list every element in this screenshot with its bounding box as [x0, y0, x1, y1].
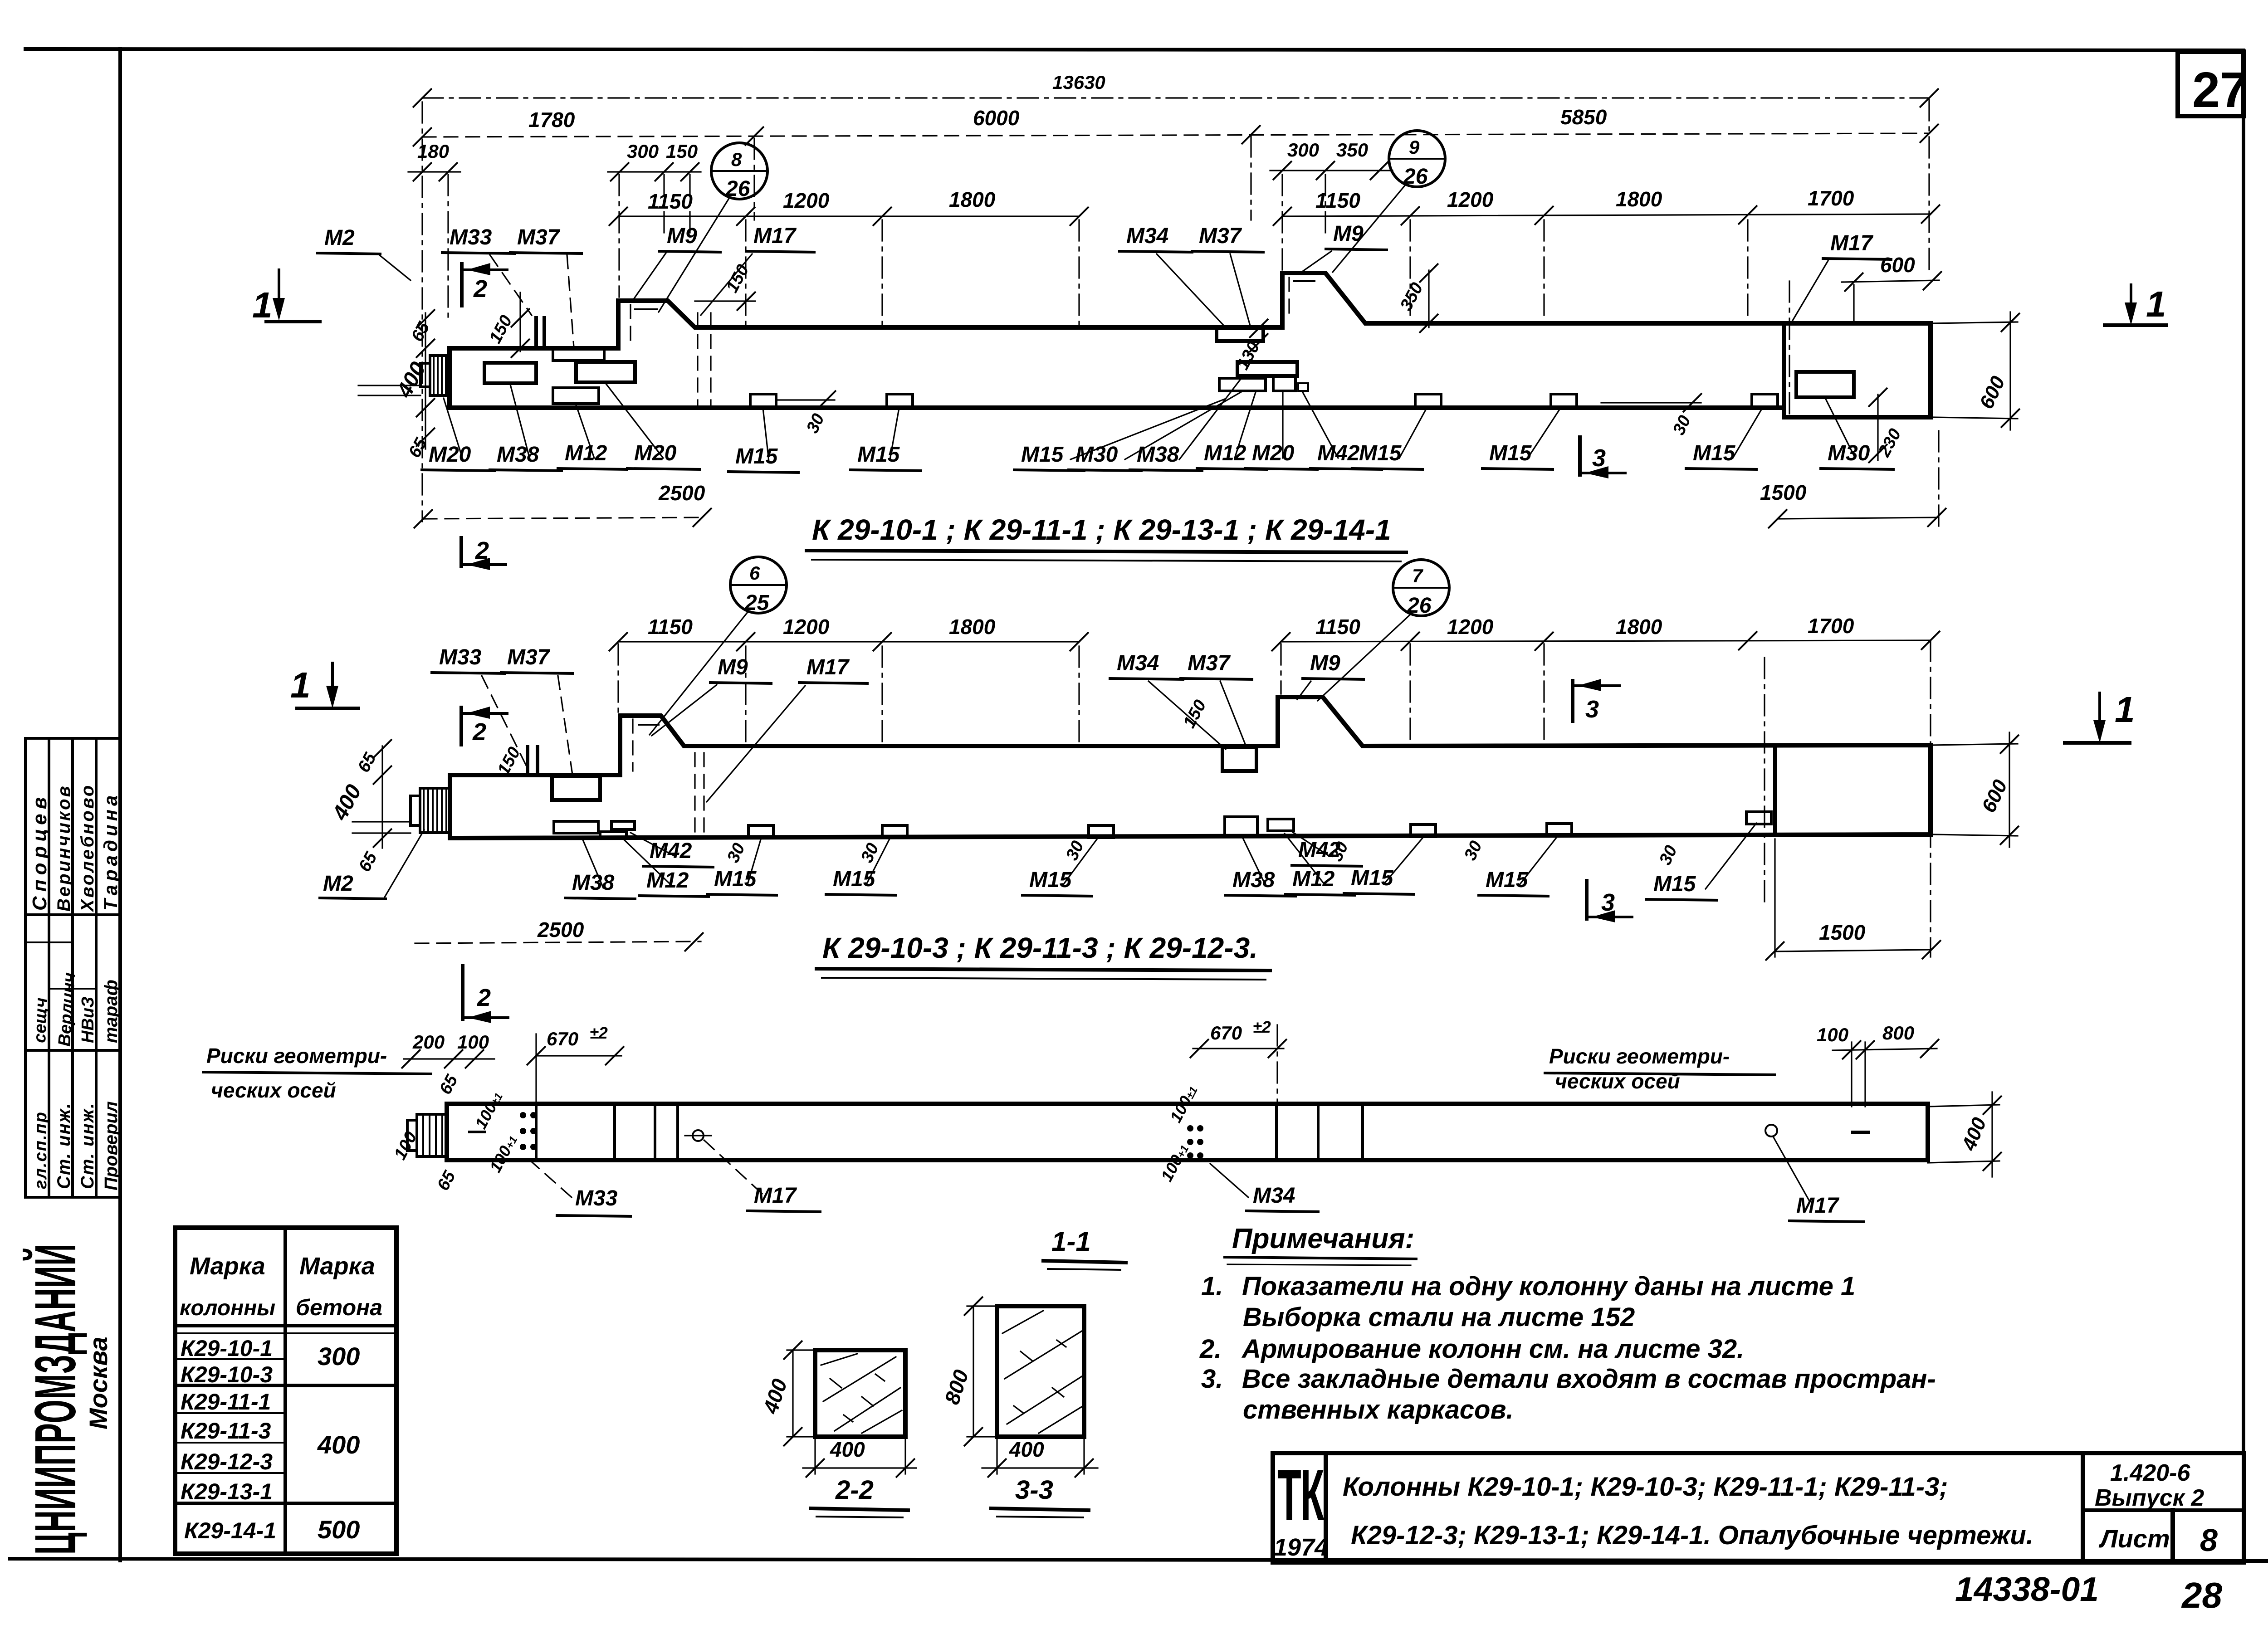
svg-text:25: 25 — [744, 591, 770, 615]
svg-text:Веринчиков: Веринчиков — [54, 784, 74, 912]
svg-text:М12: М12 — [1204, 441, 1246, 465]
circle 7/26 — [1393, 560, 1449, 616]
left end dims drawing 2 — [381, 746, 383, 848]
marks table frame — [175, 1228, 396, 1554]
dim row 180 300 150 / 300 350 — [408, 171, 460, 172]
svg-text:2.: 2. — [1199, 1334, 1222, 1364]
M30 plate — [1796, 372, 1854, 397]
svg-text:1: 1 — [2146, 284, 2166, 324]
svg-text:М34: М34 — [1126, 224, 1168, 248]
svg-text:ственных каркасов.: ственных каркасов. — [1243, 1395, 1514, 1424]
hole M17 left — [693, 1130, 704, 1141]
svg-text:Ст. инж.: Ст. инж. — [54, 1102, 74, 1189]
svg-text:М37: М37 — [507, 645, 551, 669]
svg-text:К29-14-1: К29-14-1 — [184, 1518, 276, 1543]
svg-text:М37: М37 — [1188, 651, 1231, 675]
dim 400 bottom for 2-2 — [814, 1437, 816, 1474]
svg-text:1150: 1150 — [1315, 615, 1360, 639]
svg-text:2: 2 — [477, 984, 491, 1011]
svg-text:ческих осей: ческих осей — [211, 1078, 336, 1102]
svg-text:100: 100 — [1817, 1024, 1848, 1045]
svg-text:Риски геометри-: Риски геометри- — [1549, 1044, 1730, 1068]
svg-text:3-3: 3-3 — [1015, 1475, 1053, 1505]
svg-text:К29-12-3: К29-12-3 — [181, 1449, 273, 1474]
DRAWING2 — [290, 557, 2135, 980]
svg-text:М37: М37 — [1199, 224, 1242, 248]
svg-text:800: 800 — [1882, 1022, 1914, 1044]
plates left cluster — [484, 363, 536, 383]
svg-text:3: 3 — [1585, 696, 1599, 723]
svg-text:М15: М15 — [1021, 443, 1064, 467]
svg-text:М20: М20 — [634, 441, 677, 465]
svg-text:26: 26 — [1403, 165, 1428, 189]
svg-text:1150: 1150 — [648, 190, 693, 213]
svg-text:ческих осей: ческих осей — [1555, 1069, 1680, 1093]
svg-text:М17: М17 — [807, 655, 850, 679]
svg-text:К29-10-1: К29-10-1 — [181, 1336, 273, 1361]
svg-text:Москва: Москва — [84, 1336, 112, 1429]
svg-text:М42: М42 — [650, 839, 692, 863]
svg-text:1500: 1500 — [1819, 921, 1866, 944]
svg-text:М17: М17 — [753, 224, 797, 248]
svg-text:Спорцев: Спорцев — [29, 793, 51, 911]
svg-text:1200: 1200 — [1447, 615, 1494, 639]
svg-text:28: 28 — [2181, 1575, 2222, 1615]
svg-text:±2: ±2 — [590, 1024, 608, 1042]
plates right cluster — [1217, 328, 1263, 341]
svg-text:Колонны К29-10-1; К29-10-3;: Колонны К29-10-1; К29-10-3; К29-11-1; К2… — [1343, 1472, 1948, 1502]
svg-text:М38: М38 — [497, 443, 539, 467]
svg-text:К29-11-1: К29-11-1 — [181, 1389, 271, 1415]
svg-text:2: 2 — [472, 718, 486, 746]
plates bottom right cluster — [1225, 817, 1257, 837]
svg-text:М2: М2 — [323, 872, 353, 896]
svg-text:М34: М34 — [1253, 1184, 1295, 1208]
svg-text:М12: М12 — [565, 441, 607, 465]
svg-text:1800: 1800 — [949, 615, 996, 639]
MARKS TABLE — [175, 1228, 396, 1554]
bolt cap left end — [420, 788, 450, 833]
anchor dots M33 — [520, 1112, 537, 1150]
dashed pair — [694, 753, 695, 838]
svg-text:К29-12-3; К29-13-1; К29-14-1: К29-12-3; К29-13-1; К29-14-1. Опалубочны… — [1351, 1521, 2033, 1550]
sheet number box 27 — [2178, 52, 2244, 116]
svg-text:26: 26 — [1407, 594, 1432, 618]
svg-text:М15: М15 — [1359, 441, 1402, 465]
joint line right block — [1773, 745, 1777, 834]
svg-text:колонны: колонны — [180, 1296, 275, 1320]
svg-text:500: 500 — [318, 1515, 360, 1544]
svg-text:7: 7 — [1412, 565, 1423, 586]
svg-text:1780: 1780 — [528, 108, 575, 132]
svg-text:2: 2 — [475, 537, 489, 564]
svg-text:5850: 5850 — [1560, 105, 1607, 129]
svg-text:К 29-10-3 ; К 29-11-3 ; К 29: К 29-10-3 ; К 29-11-3 ; К 29-12-3. — [822, 932, 1258, 964]
svg-text:9: 9 — [1409, 137, 1420, 158]
svg-text:М30: М30 — [1075, 443, 1118, 467]
dim row drawing 2 left — [618, 641, 1079, 642]
svg-text:М34: М34 — [1117, 651, 1159, 675]
svg-text:670: 670 — [547, 1028, 578, 1049]
svg-text:М9: М9 — [1310, 651, 1340, 675]
svg-text:3: 3 — [1592, 444, 1606, 472]
svg-text:2500: 2500 — [537, 918, 584, 941]
dim 800 vertical for 3-3 — [973, 1306, 974, 1437]
svg-text:М33: М33 — [575, 1186, 618, 1210]
svg-text:М15: М15 — [1029, 868, 1072, 892]
svg-text:гл.сп.пр: гл.сп.пр — [31, 1111, 50, 1189]
circle 8/26 — [711, 143, 767, 199]
svg-text:Выборка стали на листе 152: Выборка стали на листе 152 — [1243, 1302, 1635, 1332]
M37 prongs — [526, 747, 529, 775]
svg-text:400: 400 — [830, 1438, 865, 1461]
svg-text:1: 1 — [252, 285, 273, 325]
svg-text:200: 200 — [412, 1031, 445, 1053]
section 3-3 rect — [997, 1306, 1084, 1437]
svg-text:1700: 1700 — [1808, 614, 1854, 638]
svg-text:М17: М17 — [754, 1184, 797, 1208]
svg-text:Все закладные детали входят в: Все закладные детали входят в состав про… — [1242, 1364, 1936, 1394]
svg-text:сещч: сещч — [30, 997, 51, 1043]
svg-text:М17: М17 — [1830, 231, 1874, 255]
svg-text:М38: М38 — [572, 871, 615, 895]
dim row 1780 6000 5850 — [422, 133, 1929, 137]
svg-text:Примечания:: Примечания: — [1232, 1223, 1414, 1254]
svg-text:М15: М15 — [714, 867, 757, 891]
M37 prongs — [534, 318, 538, 348]
border left — [118, 49, 122, 1561]
600 rotated right — [1932, 322, 2018, 323]
plan joint lines — [535, 1104, 538, 1160]
svg-text:±2: ±2 — [1253, 1018, 1271, 1036]
svg-text:Хволебново: Хволебново — [78, 784, 98, 912]
svg-text:М33: М33 — [450, 225, 492, 249]
svg-text:М2: М2 — [324, 226, 355, 250]
svg-text:300: 300 — [627, 141, 659, 162]
svg-text:М15: М15 — [1351, 866, 1394, 890]
svg-text:М9: М9 — [667, 224, 697, 248]
svg-text:3.: 3. — [1201, 1364, 1223, 1394]
svg-text:8: 8 — [731, 149, 742, 170]
svg-text:27: 27 — [2192, 62, 2248, 118]
svg-text:1: 1 — [2115, 689, 2135, 730]
hole M17 right — [1765, 1125, 1777, 1136]
svg-text:300: 300 — [318, 1342, 360, 1371]
bolt cap left end — [430, 356, 450, 395]
svg-text:1-1: 1-1 — [1051, 1226, 1091, 1257]
svg-text:6000: 6000 — [973, 106, 1020, 130]
svg-text:2-2: 2-2 — [835, 1475, 874, 1505]
dim row drawing 2 right — [1281, 640, 1931, 642]
border right — [2242, 50, 2245, 1561]
STAMP COLUMN LEFT — [22, 738, 121, 1555]
svg-text:М15: М15 — [857, 443, 900, 467]
joint line right block — [1782, 323, 1786, 417]
svg-text:К29-10-3: К29-10-3 — [181, 1362, 273, 1387]
svg-text:Выпуск 2: Выпуск 2 — [2095, 1485, 2204, 1511]
svg-text:ТК: ТК — [1277, 1455, 1325, 1536]
corbel inner dashed — [632, 719, 633, 771]
svg-text:К29-11-3: К29-11-3 — [181, 1418, 271, 1444]
dim row 1150 1200 1800 left — [618, 215, 1079, 217]
dim 13630 — [422, 97, 1929, 98]
svg-text:Марка: Марка — [299, 1253, 375, 1280]
dim 400 right end — [1928, 1105, 1999, 1107]
svg-text:1800: 1800 — [1616, 187, 1662, 211]
svg-text:Проверил: Проверил — [101, 1101, 121, 1190]
svg-text:М15: М15 — [735, 444, 778, 468]
svg-text:350: 350 — [1336, 139, 1368, 161]
column body outline drawing 2 — [450, 697, 1931, 838]
SECTIONS — [758, 1226, 1126, 1517]
svg-text:2: 2 — [473, 275, 487, 302]
svg-text:М38: М38 — [1137, 443, 1179, 467]
svg-text:тараф: тараф — [101, 980, 121, 1043]
svg-text:1: 1 — [290, 665, 311, 705]
svg-text:К29-13-1: К29-13-1 — [181, 1479, 273, 1504]
svg-text:2500: 2500 — [658, 481, 705, 505]
svg-text:М42: М42 — [1317, 441, 1360, 465]
svg-text:1.420-6: 1.420-6 — [2110, 1460, 2190, 1486]
svg-text:НВиЗ: НВиЗ — [78, 996, 98, 1043]
dashed pair — [697, 313, 698, 408]
svg-text:1700: 1700 — [1808, 186, 1854, 210]
svg-text:М38: М38 — [1232, 868, 1275, 892]
svg-text:М15: М15 — [1653, 872, 1696, 896]
corbel1 inner detail — [630, 305, 631, 345]
border bottom — [10, 1559, 2268, 1561]
svg-text:Показатели на одну колонну дан: Показатели на одну колонну даны на листе… — [1242, 1272, 1855, 1301]
svg-text:670: 670 — [1210, 1022, 1242, 1044]
30 dims drawing 1 — [776, 399, 835, 400]
riska marks right — [1851, 1042, 1852, 1107]
border top — [25, 49, 2244, 50]
svg-text:13630: 13630 — [1052, 72, 1105, 93]
NOTES — [1199, 1223, 1936, 1424]
M15 plates on bottom — [750, 394, 776, 407]
svg-text:Ст. инж.: Ст. инж. — [78, 1102, 98, 1189]
svg-text:М9: М9 — [1333, 222, 1364, 246]
svg-text:М15: М15 — [1486, 868, 1529, 892]
svg-text:Лист: Лист — [2098, 1524, 2170, 1553]
title block frame — [1273, 1453, 2244, 1562]
corbel2 inner detail — [1288, 278, 1290, 317]
section 2-2 square — [815, 1350, 905, 1437]
svg-text:1150: 1150 — [1315, 189, 1360, 212]
svg-text:М20: М20 — [1252, 441, 1295, 465]
svg-text:М9: М9 — [718, 655, 748, 679]
svg-text:1200: 1200 — [1447, 188, 1494, 211]
svg-text:6: 6 — [749, 562, 760, 584]
plate M34 top right — [1222, 747, 1256, 771]
svg-text:1974: 1974 — [1274, 1534, 1328, 1561]
svg-text:Марка: Марка — [190, 1253, 265, 1280]
svg-text:300: 300 — [1287, 139, 1319, 161]
stamp table frame — [24, 738, 27, 1197]
svg-text:Тарадина: Тарадина — [100, 792, 121, 911]
left end dims drawing 1 — [425, 313, 426, 449]
svg-text:М15: М15 — [1489, 441, 1532, 465]
svg-text:М12: М12 — [646, 868, 689, 893]
svg-text:М33: М33 — [439, 645, 482, 669]
TITLE BLOCK — [1273, 1453, 2244, 1615]
svg-text:Армирование колонн см. на лист: Армирование колонн см. на листе 32. — [1241, 1334, 1744, 1364]
svg-text:400: 400 — [1009, 1438, 1044, 1461]
circle 6/25 — [730, 557, 787, 613]
plates bottom left cluster — [554, 821, 598, 833]
svg-text:1200: 1200 — [783, 615, 830, 639]
M15 plates on bottom — [748, 825, 773, 838]
600 dim right drawing 2 — [1932, 744, 2018, 745]
svg-text:14338-01: 14338-01 — [1955, 1570, 2099, 1608]
svg-text:1.: 1. — [1201, 1272, 1223, 1301]
svg-text:М37: М37 — [517, 225, 561, 249]
dim row 1150 1200 1800 1700 right — [1282, 214, 1931, 216]
extension lines — [422, 100, 1939, 526]
svg-text:400: 400 — [317, 1430, 360, 1459]
dim 400 bottom for 3-3 — [996, 1437, 997, 1474]
svg-text:М15: М15 — [1693, 441, 1736, 465]
plan view column body — [447, 1104, 1928, 1160]
lower 2 flag — [459, 538, 463, 566]
svg-text:М17: М17 — [1796, 1194, 1840, 1218]
svg-text:3: 3 — [1601, 889, 1615, 916]
rotated dims drawing 1 — [519, 293, 521, 351]
svg-text:1200: 1200 — [783, 189, 830, 212]
svg-text:ЦНИИПРОМЗДАНИЙ: ЦНИИПРОМЗДАНИЙ — [22, 1244, 88, 1555]
svg-text:600: 600 — [1880, 253, 1915, 277]
svg-text:Риски геометри-: Риски геометри- — [206, 1044, 387, 1068]
svg-text:М20: М20 — [429, 443, 471, 467]
plate M37 top — [552, 776, 600, 800]
column body outline drawing 1 — [450, 273, 1931, 417]
circle 9/26 — [1389, 131, 1445, 187]
svg-text:1800: 1800 — [1616, 615, 1662, 639]
DRAWING3 — [203, 966, 2002, 1222]
svg-text:1800: 1800 — [949, 188, 996, 211]
dim 400 vertical for 2-2 — [792, 1350, 793, 1437]
svg-text:бетона: бетона — [296, 1295, 382, 1320]
anchor dots M34 — [1187, 1125, 1203, 1159]
svg-text:150: 150 — [666, 141, 698, 162]
plate top notch — [553, 349, 604, 361]
svg-text:8: 8 — [2200, 1522, 2218, 1558]
plan bolt cap — [417, 1114, 447, 1156]
svg-text:1500: 1500 — [1760, 481, 1807, 504]
svg-text:К 29-10-1 ; К 29-11-1 ; К 29: К 29-10-1 ; К 29-11-1 ; К 29-13-1 ; К 29… — [812, 513, 1391, 546]
svg-text:1150: 1150 — [648, 615, 693, 639]
DRAWING1 — [252, 72, 2166, 570]
section mark 2 above plan — [461, 966, 464, 1019]
